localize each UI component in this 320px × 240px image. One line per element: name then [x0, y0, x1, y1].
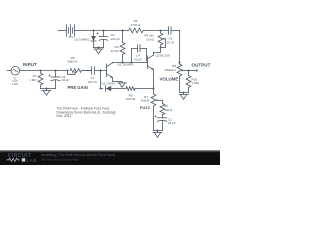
- capacitor C2: [155, 115, 167, 130]
- transistor Q2: [148, 53, 154, 89]
- svg-text:4700 Ω: 4700 Ω: [131, 23, 142, 27]
- svg-text:1kΩ-B: 1kΩ-B: [141, 99, 149, 103]
- svg-text:10 kΩ: 10 kΩ: [146, 37, 155, 41]
- svg-text:1 kHz: 1 kHz: [12, 83, 19, 86]
- wire output: [189, 70, 197, 72]
- svg-text:33 kΩ: 33 kΩ: [111, 49, 120, 53]
- wire fuzz ground run: [154, 130, 163, 132]
- svg-text:50kΩ-A: 50kΩ-A: [67, 59, 77, 63]
- ground output section: [180, 93, 189, 100]
- resistor R2: [160, 100, 165, 118]
- transistor Q1: [107, 63, 123, 82]
- wire ground run input: [41, 88, 56, 90]
- potentiometer R8 VOLUME: [177, 64, 188, 93]
- svg-text:10 µF: 10 µF: [134, 57, 142, 61]
- resistor R1: [38, 71, 43, 89]
- svg-text:100 µF: 100 µF: [111, 37, 121, 41]
- svg-text:100 Ω: 100 Ω: [164, 108, 173, 112]
- svg-text:D1 1N4002: D1 1N4002: [74, 38, 90, 42]
- resistor R4: [128, 28, 161, 33]
- capacitor C1: [86, 67, 107, 75]
- junction dots: [40, 30, 190, 132]
- resistor R9: [126, 87, 154, 91]
- svg-text:10 nF: 10 nF: [167, 40, 175, 44]
- capacitor C6: [49, 71, 60, 89]
- wire input node to pregain: [41, 70, 69, 72]
- trim pot R6: [158, 31, 165, 48]
- resistor R10: [186, 71, 191, 93]
- ground power section: [94, 48, 103, 54]
- svg-text:100kΩ-A: 100kΩ-A: [164, 68, 176, 72]
- input source V1: [7, 66, 41, 75]
- capacitor C3: [97, 31, 108, 48]
- svg-text:Nov. 2012: Nov. 2012: [57, 114, 72, 118]
- wire volume ground run: [180, 92, 189, 94]
- svg-text:OUTPUT: OUTPUT: [192, 62, 211, 67]
- potentiometer R7 FUZZ: [151, 89, 162, 131]
- wire right side down: [179, 31, 181, 65]
- ground: [42, 89, 51, 96]
- svg-text:D2 1N914: D2 1N914: [102, 82, 116, 86]
- footer bar: [0, 150, 220, 165]
- capacitor C5: [169, 27, 180, 35]
- wire Q1 collector to Q2 base: [113, 62, 148, 64]
- wire D1 C3 ground run: [94, 47, 104, 49]
- wire top rail: [94, 30, 128, 32]
- wire rail to C5: [161, 30, 169, 32]
- svg-text:INPUT: INPUT: [23, 62, 37, 67]
- svg-text:LAB: LAB: [26, 158, 37, 163]
- svg-text:22 µF: 22 µF: [168, 121, 176, 125]
- ground Q1 emitter: [118, 81, 127, 87]
- svg-text:10 µF: 10 µF: [62, 78, 70, 82]
- svg-text:100 kΩ: 100 kΩ: [126, 97, 136, 101]
- ground fuzz section: [153, 131, 162, 138]
- svg-text:220 nF: 220 nF: [88, 80, 98, 84]
- svg-text:Q2 BC109: Q2 BC109: [156, 54, 170, 58]
- svg-text:kzustang | The Pink Face (a si: kzustang | The Pink Face (a silicon Fuzz…: [41, 153, 115, 157]
- battery V 9V: [58, 25, 94, 37]
- capacitor C4: [132, 45, 147, 63]
- svg-text:PRE GAIN: PRE GAIN: [68, 85, 88, 90]
- svg-text:1 MΩ: 1 MΩ: [192, 81, 200, 85]
- wire Q2 collector to trim bottom: [154, 48, 161, 53]
- potentiometer R5 PRE GAIN: [68, 69, 92, 75]
- svg-text:FUZZ: FUZZ: [140, 105, 151, 110]
- svg-text:1 MΩ: 1 MΩ: [29, 78, 37, 82]
- svg-text:http://circuitlab.com/czp4gkz: http://circuitlab.com/czp4gkz: [41, 158, 79, 162]
- svg-text:VOLUME: VOLUME: [160, 77, 179, 82]
- diode D2: [106, 86, 127, 92]
- svg-text:9 V: 9 V: [69, 35, 74, 39]
- svg-text:Q1 2N3904: Q1 2N3904: [118, 63, 134, 67]
- wire feedback tap: [101, 71, 103, 89]
- resistor R3: [120, 31, 125, 63]
- diode D1: [91, 31, 96, 48]
